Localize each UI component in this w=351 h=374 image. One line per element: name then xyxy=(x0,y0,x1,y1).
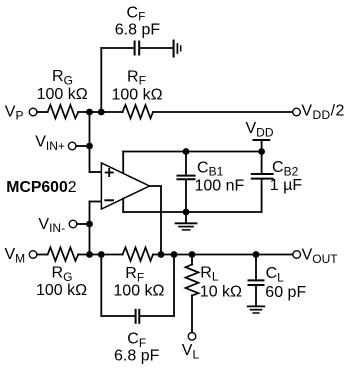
wire: VM to RG xyxy=(37,254,48,256)
svg-text:100 nF: 100 nF xyxy=(195,178,245,195)
resistor RL xyxy=(186,255,199,333)
ground (sideways, top right) xyxy=(174,41,181,57)
node VM/RG-RF junction xyxy=(86,251,93,258)
capacitor CF (top) xyxy=(135,42,140,55)
wire: CF bottom loop bottom left segment xyxy=(101,315,135,317)
wire: VIN+ stub xyxy=(76,145,89,147)
node top rail CB1 xyxy=(183,148,190,155)
node VIN+ xyxy=(86,143,93,150)
wire: CF bottom loop bottom right segment xyxy=(140,315,174,317)
resistor RG (bottom) xyxy=(48,247,79,261)
svg-text:100 kΩ: 100 kΩ xyxy=(36,282,87,299)
wire: top CF feedback wire left segment xyxy=(101,47,134,49)
resistor RF (top) xyxy=(123,105,154,119)
svg-text:10 kΩ: 10 kΩ xyxy=(200,284,242,301)
node CL xyxy=(253,251,260,258)
power VDD symbol xyxy=(254,140,270,152)
wire: top CF to ground xyxy=(140,47,173,49)
terminal VL xyxy=(188,333,196,341)
node RL xyxy=(189,251,196,258)
svg-text:MCP6002: MCP6002 xyxy=(6,179,76,196)
node VP/RG-RF junction xyxy=(86,109,93,116)
wire: horizontal from - input xyxy=(90,201,102,203)
resistor RF (bottom) xyxy=(123,247,154,261)
ground (below CL) xyxy=(248,306,265,313)
svg-text:60 pF: 60 pF xyxy=(265,284,306,301)
wire: CF bottom loop right vertical xyxy=(173,255,175,317)
terminal VDD/2 xyxy=(293,108,301,116)
wire: V- supply pin of op-amp xyxy=(122,199,124,213)
wire: op-amp output xyxy=(150,186,162,255)
resistor RG (top) xyxy=(48,105,79,119)
svg-text:100 kΩ: 100 kΩ xyxy=(113,283,164,300)
terminal VP xyxy=(29,108,37,116)
node VIN- xyxy=(86,221,93,228)
svg-text:100 kΩ: 100 kΩ xyxy=(112,87,163,104)
terminal VM xyxy=(29,251,37,259)
node CF bottom tap xyxy=(98,251,105,258)
node top rail VDD xyxy=(258,148,265,155)
wire: horizontal into + input xyxy=(90,171,102,173)
wire: vertical VP node to op-amp + input xyxy=(89,112,91,172)
terminal VIN- xyxy=(69,220,77,228)
node bottom rail CB1/ground xyxy=(183,209,190,216)
wire: V+ supply pin of op-amp xyxy=(122,152,124,174)
svg-text:6.8 pF: 6.8 pF xyxy=(115,22,161,39)
wire: bottom supply rail xyxy=(123,211,261,213)
capacitor CL xyxy=(249,255,264,307)
wire: VP to RG xyxy=(37,111,48,113)
junction dots xyxy=(86,109,265,258)
svg-text:1 µF: 1 µF xyxy=(270,177,303,194)
node CF top tap xyxy=(98,109,105,116)
wire: RG to RF top row xyxy=(78,111,122,113)
wire: vertical from CF top down to VP node xyxy=(100,48,102,112)
svg-text:100 kΩ: 100 kΩ xyxy=(37,86,88,103)
wire: RF to VDD/2 terminal xyxy=(153,111,293,113)
node CF loop right xyxy=(171,251,178,258)
capacitor CB2 xyxy=(252,152,273,213)
wire: output row to VOUT terminal xyxy=(153,254,293,256)
wire: CF bottom loop left vertical xyxy=(100,255,102,317)
ground (below CB1) xyxy=(176,212,197,230)
wire: VIN- stub xyxy=(77,223,90,225)
wire: vertical - input down to VM node xyxy=(89,202,91,255)
wire: RG to RF bottom row xyxy=(78,254,122,256)
capacitor CB1 xyxy=(178,152,195,213)
op-amp - input symbol xyxy=(105,199,113,201)
svg-text:6.8 pF: 6.8 pF xyxy=(114,348,160,365)
op-amp + input symbol xyxy=(106,169,113,176)
terminal VIN+ xyxy=(68,142,76,150)
op-amp U1 triangle xyxy=(101,163,149,209)
wire: top supply rail xyxy=(123,151,261,153)
terminal VOUT xyxy=(293,251,301,259)
node output to VM row xyxy=(158,251,165,258)
capacitor CF (bottom) xyxy=(136,310,140,323)
